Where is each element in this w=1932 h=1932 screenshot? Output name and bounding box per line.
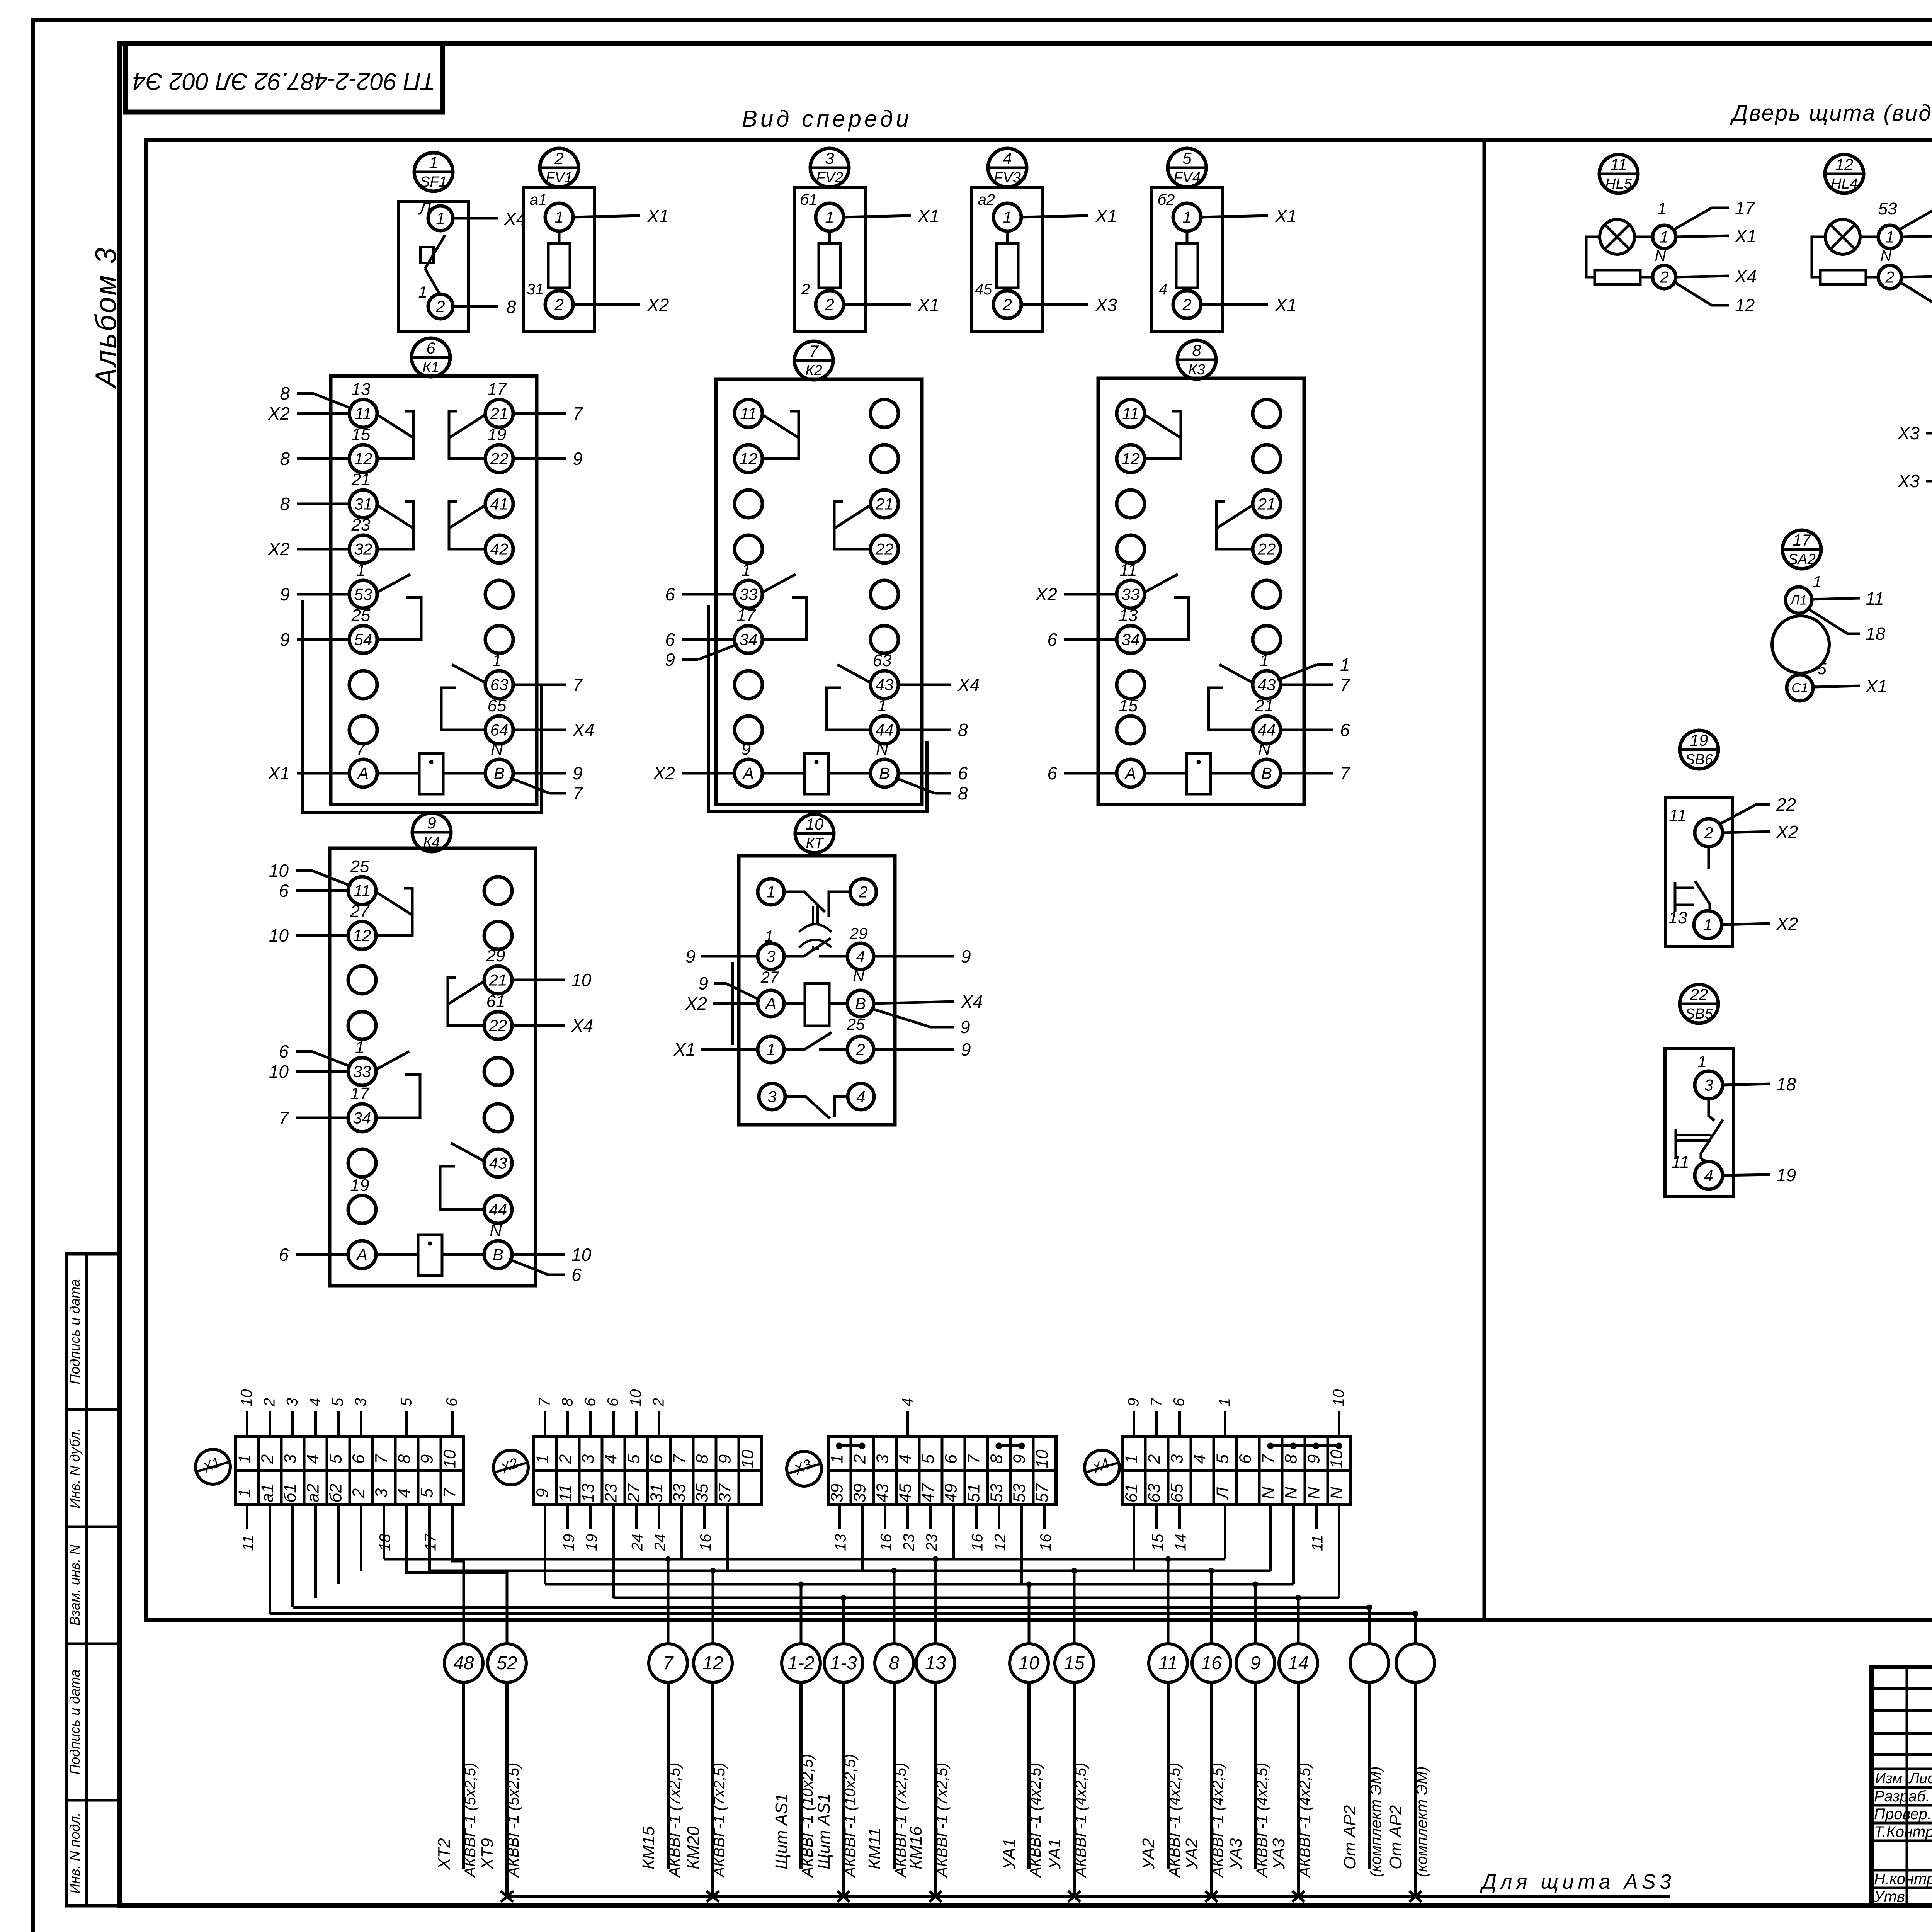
lamp HL5 ballast resistor	[1595, 270, 1640, 284]
svg-text:14: 14	[1288, 1653, 1308, 1673]
relay К3 NC contact rows 3-4 r	[1217, 505, 1253, 528]
wire 6 to К3 right row 8	[1281, 729, 1333, 731]
relay К1 pin 32 (left row 4)	[349, 535, 377, 563]
svg-text:44: 44	[1258, 721, 1276, 739]
svg-text:ХТ9: ХТ9	[478, 1838, 497, 1870]
svg-text:8: 8	[280, 494, 290, 514]
wire drop from X4 terminal 7	[1269, 1505, 1272, 1571]
cable number circle 1-2	[782, 1644, 820, 1682]
svg-text:N: N	[1327, 1487, 1346, 1499]
svg-text:12: 12	[353, 926, 371, 944]
wire 6 into X1 terminal 10	[451, 1411, 454, 1437]
lamp HL5 bulb symbol	[1600, 219, 1634, 254]
relay К2 pin А (left row 9)	[735, 759, 762, 787]
svg-text:Подпись и дата: Подпись и дата	[67, 1669, 83, 1774]
svg-text:В: В	[879, 764, 890, 782]
KT pin 1 (row 1)	[758, 879, 784, 905]
svg-text:52: 52	[497, 1653, 517, 1673]
wire 17 from HL5 pin 1	[1673, 208, 1729, 230]
svg-text:6: 6	[1171, 1398, 1188, 1406]
wire Х3 to SA6 pin 4	[1926, 480, 1932, 483]
svg-text:Х3: Х3	[1095, 295, 1117, 315]
svg-text:КМ20: КМ20	[684, 1826, 703, 1869]
svg-text:ТП 902-2-487.92 ЭЛ 002 Э4: ТП 902-2-487.92 ЭЛ 002 Э4	[133, 68, 435, 95]
svg-text:7: 7	[372, 1454, 391, 1464]
junction X-mark for cable КМ20	[707, 1891, 719, 1902]
svg-text:6: 6	[279, 881, 289, 901]
svg-text:Х3: Х3	[1898, 423, 1920, 443]
relay К2 pin 22 (right row 4)	[871, 535, 898, 563]
svg-text:22: 22	[1257, 540, 1276, 558]
wire feed and junction to cable at x=2421	[934, 1559, 937, 1644]
svg-text:В: В	[855, 994, 866, 1012]
relay К4 pin blank (left row 3)	[348, 966, 376, 994]
svg-text:3: 3	[372, 1488, 391, 1498]
svg-text:Х1: Х1	[1275, 206, 1297, 226]
svg-text:8: 8	[958, 783, 968, 803]
relay К3 NO contact rows 5-6 l	[1144, 574, 1178, 593]
wire feed and junction to cable at x=3023	[1167, 1559, 1170, 1644]
svg-text:1: 1	[436, 209, 445, 227]
svg-text:7: 7	[1259, 1454, 1278, 1464]
svg-text:Х2: Х2	[1035, 584, 1057, 604]
wire 16 from X3 terminal 10	[1043, 1505, 1046, 1529]
relay К4 NO contact rows 7-8 r	[451, 1143, 485, 1162]
svg-text:АКВВГ-1 (7х2,5): АКВВГ-1 (7х2,5)	[934, 1762, 951, 1878]
wire Х4 from HL5 pin 2	[1676, 276, 1729, 277]
designator circle 6/К1	[412, 338, 450, 377]
fuse FV1 cartridge	[558, 231, 561, 243]
relay К1 pin 12 (left row 2)	[349, 445, 377, 473]
svg-text:АКВВГ-1 (4х2,5): АКВВГ-1 (4х2,5)	[1209, 1762, 1226, 1878]
relay К1 NO contact rows 5-6 l	[376, 574, 410, 593]
KT delayed contact row 1	[784, 892, 825, 912]
svg-text:9: 9	[1125, 1398, 1142, 1406]
svg-text:Х2: Х2	[653, 763, 675, 783]
fuse FV4 cartridge	[1186, 231, 1189, 243]
svg-text:N: N	[491, 740, 503, 759]
svg-text:53: 53	[1878, 199, 1897, 218]
svg-text:7: 7	[573, 783, 583, 803]
svg-text:N: N	[490, 1221, 502, 1240]
svg-text:9: 9	[533, 1488, 552, 1498]
svg-text:8: 8	[395, 1454, 414, 1464]
svg-text:10: 10	[269, 925, 289, 946]
wire drop from X4 terminal 10	[1338, 1505, 1340, 1598]
KT pin 4 (row 2)	[847, 943, 874, 969]
wire drop from X2 terminal 7	[680, 1505, 683, 1559]
svg-text:61: 61	[486, 992, 505, 1011]
wire Х2 to KT pin А	[713, 1002, 758, 1005]
svg-text:6: 6	[349, 1454, 368, 1464]
svg-text:8: 8	[559, 1398, 576, 1406]
wire drop from X1 terminal 5	[337, 1505, 340, 1584]
svg-text:1: 1	[1340, 655, 1350, 675]
svg-text:27: 27	[350, 902, 370, 921]
cable number circle (blank)	[1396, 1644, 1435, 1682]
relay К4 pin 21 (right row 3)	[484, 966, 512, 994]
svg-text:7: 7	[440, 1488, 459, 1498]
svg-text:6: 6	[1340, 720, 1350, 740]
cable УА1 line	[1027, 1682, 1031, 1869]
svg-text:43: 43	[876, 675, 894, 694]
svg-text:2: 2	[258, 1454, 277, 1464]
KT pin 2 (row 1)	[850, 879, 876, 905]
wire 6 to К3 left row 6	[1064, 638, 1117, 641]
relay К4 pin blank (right row 2)	[484, 922, 512, 949]
wire 6 to К2 left row 6	[682, 638, 735, 641]
svg-text:10: 10	[1327, 1449, 1346, 1468]
svg-text:49: 49	[942, 1484, 961, 1503]
svg-text:HL4: HL4	[1831, 176, 1858, 192]
svg-text:FV1: FV1	[546, 170, 573, 186]
svg-text:8: 8	[1192, 341, 1201, 359]
wire 8 from SF1 pin 2	[453, 305, 498, 308]
relay К1 pin 54 (left row 6)	[349, 626, 377, 653]
wire 7 to К1 right row 1	[513, 412, 566, 415]
svg-text:12: 12	[1835, 155, 1854, 173]
wire 6 to К4 left row 9	[296, 1253, 348, 1256]
switch SА2 pin Л1	[1786, 587, 1812, 613]
cable КМ11 line	[893, 1682, 896, 1869]
wire 18 from X1 terminal 7	[383, 1505, 385, 1529]
relay К2 pin 11 (left row 1)	[735, 400, 762, 427]
wire drop from X1 terminal 9	[428, 1505, 431, 1571]
svg-text:10: 10	[628, 1389, 645, 1407]
wire 23 from X3 terminal 4	[906, 1505, 909, 1529]
svg-text:39: 39	[850, 1484, 869, 1503]
cable КМ16 line	[934, 1682, 937, 1896]
svg-text:2: 2	[801, 281, 810, 298]
svg-text:1: 1	[554, 208, 563, 226]
cable От АР2 line	[1414, 1682, 1417, 1896]
relay К2 pin blank (right row 5)	[871, 580, 898, 608]
relay К3 pin 44 (right row 8)	[1253, 716, 1281, 744]
relay К3 pin blank (right row 1)	[1253, 400, 1281, 427]
wire Х1 from FV4 pin 2	[1201, 303, 1268, 306]
button SВ6 body	[1665, 798, 1733, 946]
svg-text:31: 31	[527, 281, 544, 298]
svg-text:17: 17	[1793, 531, 1811, 549]
relay К1 coil	[377, 772, 419, 775]
svg-text:5: 5	[398, 1398, 415, 1406]
wire 8 to К1 left row 3	[297, 503, 349, 505]
relay К4 pin blank (right row 6)	[484, 1104, 512, 1132]
svg-text:5: 5	[1213, 1454, 1232, 1464]
svg-text:27: 27	[624, 1483, 643, 1503]
svg-text:9: 9	[573, 449, 583, 469]
relay К2 pin blank (left row 7)	[735, 671, 762, 699]
svg-text:21: 21	[875, 495, 894, 513]
svg-text:Щит АS1: Щит АS1	[815, 1793, 833, 1869]
svg-text:9: 9	[573, 763, 583, 783]
svg-text:Вид спереди: Вид спереди	[742, 106, 912, 132]
cable number circle 8	[875, 1644, 913, 1682]
svg-text:23: 23	[602, 1483, 621, 1503]
svg-text:31: 31	[354, 495, 372, 513]
svg-text:33: 33	[353, 1062, 371, 1080]
svg-text:Разраб.: Разраб.	[1874, 1788, 1930, 1805]
svg-text:б2: б2	[327, 1483, 345, 1502]
relay К4 pin 11 (left row 1)	[348, 877, 376, 905]
svg-text:18: 18	[1866, 624, 1886, 644]
svg-text:1: 1	[492, 651, 502, 670]
svg-text:25: 25	[351, 606, 371, 625]
svg-text:61: 61	[1122, 1484, 1141, 1503]
jumper X4 7-10	[1271, 1444, 1339, 1447]
svg-text:23: 23	[351, 515, 371, 534]
fuse FV3 pin 1	[993, 203, 1021, 231]
svg-text:4: 4	[896, 1454, 915, 1464]
svg-text:6: 6	[279, 1041, 289, 1061]
wire feed and junction to cable at x=2780	[1073, 1571, 1076, 1644]
svg-text:4: 4	[307, 1398, 324, 1406]
svg-text:7: 7	[356, 740, 366, 759]
designator circle 12/HL4	[1825, 155, 1864, 193]
wire 7 to К3 right row 9	[1281, 772, 1333, 775]
svg-text:7: 7	[809, 342, 819, 360]
svg-text:1: 1	[1813, 573, 1821, 591]
svg-text:1: 1	[1260, 651, 1269, 670]
wire 7 to К1 right row 9	[510, 778, 549, 793]
svg-text:б1: б1	[800, 191, 818, 208]
svg-text:8: 8	[506, 297, 516, 317]
wire harness horizontal run level 5	[293, 1606, 1370, 1609]
svg-text:4: 4	[395, 1488, 414, 1498]
relay К2 pin blank (left row 8)	[735, 716, 762, 744]
svg-text:39: 39	[828, 1484, 847, 1503]
wire 2 into X1 terminal 2	[269, 1411, 271, 1437]
wire Х4 from KT pin В	[874, 1002, 954, 1003]
wire harness horizontal run level 6	[270, 1612, 1416, 1615]
relay К4 pin blank (left row 4)	[348, 1012, 376, 1039]
lamp HL5 pin 2	[1653, 265, 1676, 289]
relay К4 NO contact rows 5-6 l	[375, 1051, 409, 1070]
svg-text:7: 7	[964, 1454, 983, 1464]
svg-text:1: 1	[356, 561, 366, 580]
svg-text:2: 2	[261, 1398, 278, 1407]
svg-text:9: 9	[280, 629, 290, 650]
switch SА2 pin С1	[1787, 675, 1813, 701]
wire 13 from X3 terminal 1	[838, 1505, 841, 1529]
svg-text:1: 1	[429, 153, 438, 172]
button SВ5 body	[1665, 1048, 1734, 1196]
svg-text:3: 3	[284, 1398, 301, 1406]
svg-text:АКВВГ-1 (4х2,5): АКВВГ-1 (4х2,5)	[1166, 1762, 1183, 1878]
breaker SF1 body	[399, 202, 468, 331]
junction X-mark for cable УА1	[1068, 1891, 1080, 1902]
fuse FV2 cartridge	[828, 231, 831, 243]
wire feed and junction to cable at x=2183	[842, 1598, 845, 1644]
cable УА1 line	[1073, 1682, 1076, 1896]
wire 9 to KT pin А	[714, 983, 758, 999]
svg-text:Х2: Х2	[268, 403, 290, 423]
schematic enclosure box	[146, 140, 1932, 1620]
svg-text:35: 35	[693, 1483, 712, 1502]
svg-text:10: 10	[806, 815, 824, 833]
svg-text:10: 10	[738, 1449, 757, 1468]
svg-text:57: 57	[1033, 1483, 1052, 1502]
svg-text:41: 41	[490, 495, 509, 513]
svg-text:65: 65	[488, 696, 507, 715]
svg-text:22: 22	[489, 1016, 507, 1034]
relay К4 pin blank (right row 1)	[484, 877, 512, 905]
svg-text:2: 2	[825, 295, 834, 313]
svg-text:3: 3	[766, 947, 775, 965]
svg-text:Х1: Х1	[673, 1039, 696, 1060]
svg-text:2: 2	[855, 1040, 865, 1058]
fuse FV3 pin 2	[993, 291, 1021, 318]
relay К2 NO contact rows 5-6 l	[762, 574, 796, 593]
svg-text:4: 4	[1704, 1166, 1713, 1184]
relay К3 pin 34 (left row 6)	[1117, 626, 1145, 653]
wire loop around relay К1	[302, 600, 542, 812]
relay К1 NC contact rows 3-4 l	[376, 505, 413, 528]
wire drop from X3 terminal 6	[952, 1505, 955, 1559]
wire harness horizontal run level 3	[545, 1583, 1294, 1586]
wire 11 from X1 terminal 1	[246, 1505, 248, 1529]
cable number circle (blank)	[1350, 1644, 1389, 1682]
wire drop from X1 terminal 3	[291, 1505, 294, 1607]
wire feed and junction to cable at x=1845	[712, 1571, 714, 1644]
svg-text:33: 33	[1122, 585, 1140, 603]
wire 3 into X1 terminal 3	[291, 1411, 294, 1437]
wire 3 into X1 terminal 6	[360, 1411, 362, 1437]
wire 9 to KT pin 3	[701, 955, 758, 958]
relay К4 pin 22 (right row 4)	[484, 1012, 512, 1039]
svg-text:АКВВГ-1 (7х2,5): АКВВГ-1 (7х2,5)	[711, 1762, 728, 1878]
svg-text:23: 23	[901, 1534, 918, 1552]
svg-text:33: 33	[670, 1483, 689, 1502]
svg-text:21: 21	[1257, 495, 1276, 513]
button SВ5 pin 3	[1695, 1071, 1723, 1099]
svg-text:2: 2	[554, 149, 563, 167]
relay К3 NO contact rows 7-8 r	[1219, 665, 1253, 683]
relay К4 pin А (left row 9)	[348, 1241, 376, 1269]
cable number circle 9	[1236, 1644, 1275, 1682]
svg-text:63: 63	[1145, 1483, 1164, 1502]
svg-text:19: 19	[1776, 1165, 1796, 1185]
wire feed and junction to cable at x=3544	[1368, 1607, 1371, 1644]
cable number circle 15	[1055, 1644, 1094, 1682]
wire 9 to К1 left row 6	[297, 638, 349, 641]
title block grid	[1871, 1667, 1932, 1906]
cable number circle 52	[488, 1644, 526, 1682]
svg-text:12: 12	[354, 449, 372, 468]
svg-text:19: 19	[561, 1534, 578, 1551]
designator circle 8/К3	[1177, 340, 1216, 379]
svg-text:25: 25	[350, 857, 369, 876]
svg-text:АКВВГ-1 (4х2,5): АКВВГ-1 (4х2,5)	[1253, 1762, 1270, 1878]
svg-text:ХТ2: ХТ2	[435, 1838, 454, 1870]
fuse FV4 pin 1	[1173, 203, 1201, 231]
svg-text:Х1: Х1	[647, 206, 669, 226]
svg-text:КТ: КТ	[806, 835, 824, 852]
cable ХТ2 line	[462, 1682, 465, 1869]
svg-text:9: 9	[1010, 1454, 1029, 1464]
svg-text:12: 12	[992, 1534, 1009, 1551]
svg-text:12: 12	[740, 449, 758, 468]
relay К4 pin В (right row 9)	[484, 1241, 512, 1269]
svg-text:16: 16	[969, 1534, 986, 1551]
wire Х1 from FV1 pin 1	[573, 216, 640, 217]
svg-text:6: 6	[426, 339, 435, 357]
svg-text:5: 5	[327, 1454, 345, 1464]
svg-text:17: 17	[1735, 198, 1755, 218]
wire 6 to К4 left row 1	[296, 889, 348, 892]
svg-text:К1: К1	[422, 359, 439, 376]
svg-text:43: 43	[489, 1154, 507, 1172]
svg-text:10: 10	[269, 861, 289, 881]
wire Х2 from SВ6 pin 2	[1723, 832, 1770, 833]
svg-text:1: 1	[355, 1038, 364, 1057]
wire drop from X4 terminal 8	[1292, 1505, 1295, 1584]
wire Х1 from FV3 pin 1	[1021, 216, 1088, 217]
relay К2 pin blank (right row 2)	[871, 445, 898, 473]
cable УА2 line	[1210, 1682, 1213, 1896]
svg-text:34: 34	[740, 630, 758, 648]
svg-text:6: 6	[279, 1245, 289, 1265]
designator circle X4	[1085, 1450, 1119, 1485]
time relay KT body	[739, 856, 895, 1125]
schematic enclosure divider	[1483, 140, 1486, 1620]
left margin stamp column	[66, 1254, 119, 1906]
wire lamp HL5 to pin 1	[1634, 236, 1653, 238]
svg-text:а1: а1	[530, 191, 547, 208]
svg-text:19: 19	[583, 1534, 600, 1551]
svg-text:44: 44	[489, 1200, 507, 1218]
wire 24 from X2 terminal 5	[635, 1505, 638, 1529]
svg-text:Х2: Х2	[647, 295, 669, 315]
svg-text:N: N	[1881, 247, 1892, 264]
wire 10 into X2 terminal 5	[635, 1411, 638, 1437]
svg-text:Х4: Х4	[571, 1015, 593, 1036]
svg-text:N: N	[1258, 740, 1270, 759]
wire loop around relay К2	[709, 605, 927, 811]
svg-text:1-2: 1-2	[787, 1653, 814, 1673]
relay К2 pin blank (right row 1)	[871, 400, 898, 427]
cable number circle 14	[1279, 1644, 1318, 1682]
svg-text:8: 8	[958, 720, 968, 740]
svg-text:11: 11	[1122, 404, 1139, 422]
svg-text:N: N	[1304, 1487, 1323, 1499]
svg-text:15: 15	[1119, 696, 1138, 715]
svg-text:2: 2	[1002, 295, 1012, 313]
KT pin 2 (row 4)	[847, 1036, 874, 1063]
designator circle 4/FV3	[988, 148, 1027, 187]
svg-text:От АР2: От АР2	[1386, 1805, 1405, 1869]
relay К3 NC contact rows 1-2 l	[1144, 414, 1180, 437]
svg-text:3: 3	[281, 1454, 300, 1464]
relay К2 pin blank (left row 4)	[735, 535, 762, 563]
wire Х3 to SA6 pin 2	[1926, 432, 1932, 435]
svg-text:9: 9	[665, 650, 675, 670]
svg-text:47: 47	[919, 1483, 938, 1502]
wire Х1 from FV2 pin 1	[844, 216, 911, 217]
svg-text:1: 1	[878, 696, 887, 715]
svg-text:N: N	[853, 967, 865, 985]
svg-text:65: 65	[1168, 1483, 1187, 1502]
collector line to panel AS3	[507, 1895, 1670, 1898]
wire 10 to К4 left row 2	[296, 934, 348, 937]
svg-text:2: 2	[1659, 268, 1668, 286]
svg-text:Х1: Х1	[1735, 226, 1757, 246]
relay К3 pin blank (left row 4)	[1117, 535, 1145, 563]
svg-text:Х1: Х1	[268, 763, 290, 783]
svg-text:1: 1	[1697, 1052, 1707, 1071]
wire 5 into X1 terminal 8	[405, 1411, 408, 1437]
wire 7 into X4 terminal 2	[1155, 1411, 1158, 1437]
